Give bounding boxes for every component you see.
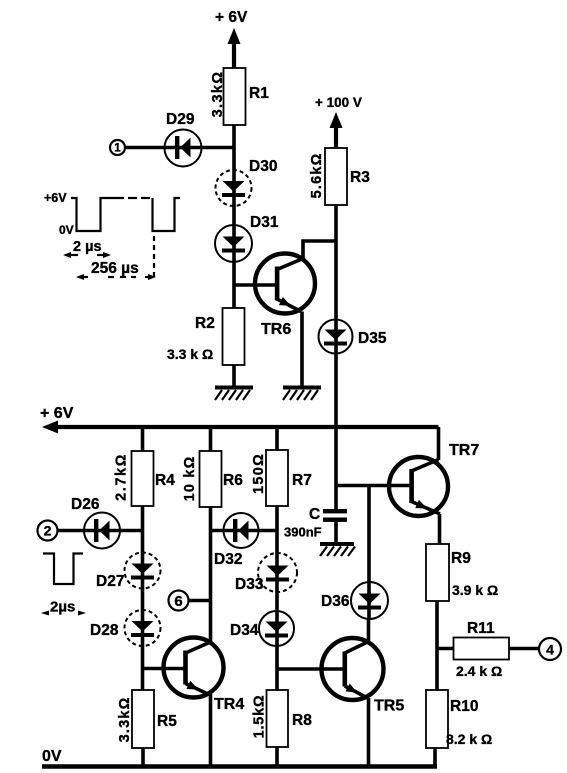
svg-text:D32: D32 [214, 551, 242, 568]
wire R7 bottom to R8 top (through D33,D34) [275, 506, 279, 690]
terminal 2 [38, 521, 58, 541]
+100V supply arrow [330, 112, 343, 128]
ground under R2 [215, 388, 253, 401]
diode D30 [216, 170, 252, 206]
terminal 4 [539, 638, 561, 660]
diode D32 [211, 513, 278, 548]
svg-text:R8: R8 [292, 712, 312, 729]
resistor R2 [223, 308, 245, 365]
svg-text:R4: R4 [155, 472, 175, 489]
resistor R5 [132, 690, 154, 748]
wire TR7 emitter to R9 [438, 514, 442, 544]
svg-text:6: 6 [174, 593, 182, 610]
+6V supply arrow [228, 28, 241, 44]
svg-text:+ 100 V: + 100 V [315, 95, 362, 110]
svg-text:8.2 k Ω: 8.2 k Ω [446, 731, 492, 747]
svg-text:D28: D28 [90, 622, 119, 639]
resistor R7 [266, 450, 288, 506]
svg-text:D31: D31 [250, 214, 279, 231]
svg-text:+ 6V: + 6V [215, 9, 248, 26]
resistor R3 [325, 148, 347, 205]
svg-text:3.3 k Ω: 3.3 k Ω [167, 346, 213, 362]
R8 value 1.5kΩ [252, 695, 268, 739]
wire junction to R11 [437, 647, 454, 651]
wire TR6 emitter to ground [300, 312, 304, 388]
svg-text:D27: D27 [96, 573, 124, 590]
transistor TR5 [322, 638, 384, 700]
svg-text:4: 4 [546, 642, 554, 658]
resistor R4 [132, 451, 154, 506]
svg-text:D26: D26 [71, 496, 100, 513]
svg-text:10 kΩ: 10 kΩ [182, 456, 198, 502]
svg-text:R7: R7 [292, 472, 312, 489]
svg-text:R1: R1 [249, 85, 269, 102]
resistor R8 [267, 690, 289, 747]
svg-text:D36: D36 [321, 593, 350, 610]
svg-text:R3: R3 [350, 169, 370, 186]
svg-text:3.3kΩ: 3.3kΩ [210, 71, 226, 118]
svg-text:256 µs: 256 µs [91, 260, 139, 277]
wire R2 to ground [232, 365, 236, 387]
wire bus corner down to TR7 collector [437, 427, 441, 460]
svg-text:0V: 0V [42, 748, 62, 765]
R4 value 2.7kΩ [114, 453, 130, 501]
wire TR6 collector to R3 net [303, 241, 336, 260]
wire R3 down through D35 to C / TR7 base node [334, 205, 338, 511]
wire R4 bottom to R5 top (through D27,D28) [141, 506, 145, 690]
svg-text:3.9 k Ω: 3.9 k Ω [452, 582, 498, 598]
svg-text:2µs: 2µs [50, 599, 75, 616]
svg-text:390nF: 390nF [284, 525, 322, 540]
wire node 6 to collector line [189, 599, 211, 603]
wire bus to R7 [275, 427, 279, 450]
wire R8 to 0V [275, 747, 279, 766]
svg-text:R5: R5 [157, 713, 177, 730]
node 6 [169, 591, 189, 611]
input waveform at terminal 1 [44, 191, 180, 280]
+6V rail bus [55, 425, 439, 429]
diode D34 [259, 611, 294, 646]
svg-text:+ 6V: + 6V [40, 405, 74, 422]
0V rail [42, 764, 437, 769]
diode D35 [319, 320, 353, 354]
svg-text:D30: D30 [249, 158, 277, 175]
wire terminal 2 to D26 [58, 529, 87, 533]
transistor TR6 [255, 254, 315, 314]
wire TR5 base [277, 667, 345, 671]
svg-text:2: 2 [44, 523, 52, 539]
svg-text:D35: D35 [358, 330, 387, 347]
svg-text:R9: R9 [451, 550, 471, 567]
wire R9 to R10 junction [435, 601, 439, 690]
diode D27 [125, 553, 161, 589]
+6V rail arrow [42, 421, 58, 434]
svg-text:D33: D33 [235, 576, 264, 593]
svg-text:R2: R2 [195, 315, 215, 332]
wire TR5 emitter to 0V [367, 698, 371, 766]
svg-text:2.4 k Ω: 2.4 k Ω [456, 663, 502, 679]
svg-text:TR7: TR7 [449, 442, 479, 459]
resistor R1 [224, 68, 246, 125]
wire TR7 base [336, 484, 412, 488]
wire R6 bottom to TR4 collector (through D32 and node 6 junctions) [209, 507, 213, 642]
svg-text:2.7kΩ: 2.7kΩ [114, 453, 130, 501]
svg-text:D34: D34 [230, 622, 259, 639]
diode D33 [258, 553, 297, 592]
input waveform at terminal 2 [41, 554, 86, 616]
wire bus to R4 [141, 427, 145, 451]
resistor R6 [200, 451, 222, 507]
wire R1 bottom to R2 top (through D30,D31) [232, 125, 236, 309]
svg-text:TR4: TR4 [214, 696, 244, 713]
svg-text:D29: D29 [166, 111, 195, 128]
svg-text:150Ω: 150Ω [251, 453, 267, 494]
svg-text:R10: R10 [450, 698, 478, 715]
svg-text:3.3kΩ: 3.3kΩ [117, 697, 133, 743]
wire R10 to 0V [433, 748, 437, 766]
svg-text:0V: 0V [59, 223, 74, 237]
ground under TR6 emitter [283, 388, 321, 401]
wire TR4 emitter to 0V [209, 694, 213, 766]
svg-text:R6: R6 [223, 472, 243, 489]
transistor TR4 [164, 638, 224, 698]
transistor TR7 [389, 457, 448, 516]
svg-text:C: C [309, 506, 320, 523]
wire R5 to 0V [141, 748, 145, 766]
svg-text:1.5kΩ: 1.5kΩ [252, 695, 268, 739]
R1 value 3.3kΩ [210, 71, 226, 118]
wire TR6 base [234, 283, 277, 287]
svg-text:TR6: TR6 [261, 321, 291, 338]
diode D28 [125, 610, 161, 646]
resistor R9 [426, 544, 449, 601]
svg-text:+6V: +6V [44, 191, 67, 205]
svg-text:R11: R11 [467, 620, 495, 637]
R5 value 3.3kΩ [117, 697, 133, 743]
wire R11 to terminal 4 [509, 647, 539, 651]
diode D31 [215, 225, 252, 262]
R3 value 5.6kΩ [309, 153, 325, 199]
wire TR5 collector to D36 [367, 619, 371, 642]
capacitor C [323, 509, 347, 544]
svg-text:2 µs: 2 µs [73, 239, 102, 255]
wire bus to R6 [209, 427, 213, 451]
diode D29 [165, 130, 235, 167]
R7 value 150Ω [251, 453, 267, 494]
wire TR4 base [143, 667, 187, 671]
R6 value 10 kΩ [182, 456, 198, 502]
terminal 1 [110, 140, 125, 155]
wire terminal 1 to D29 [125, 146, 166, 150]
diode D26 [84, 513, 143, 549]
diode D36 [351, 486, 388, 620]
resistor R10 [426, 690, 448, 748]
svg-text:1: 1 [114, 143, 121, 155]
svg-text:TR5: TR5 [374, 698, 404, 715]
svg-text:5.6kΩ: 5.6kΩ [309, 153, 325, 199]
ground under C [320, 544, 355, 556]
resistor R11 [454, 638, 510, 660]
